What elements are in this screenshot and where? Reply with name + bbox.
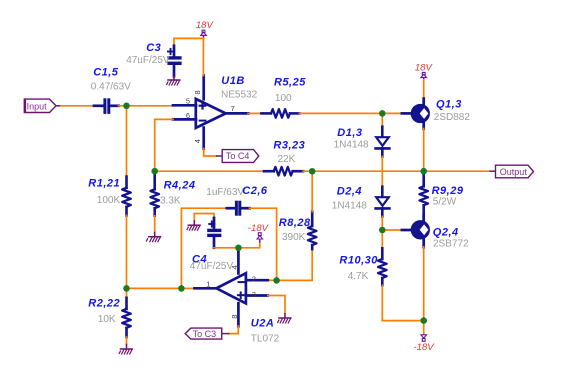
wire U2A pin3 to ground: [268, 296, 285, 314]
capacitor C1,5: [91, 67, 131, 113]
feedback rail R3 to output port: [303, 170, 490, 172]
svg-text:C3: C3: [146, 42, 161, 54]
node D junction: [178, 285, 185, 292]
wire U1B pin7 to R5: [248, 112, 262, 114]
output port: [490, 165, 533, 178]
wire node B to U1B pin 5: [127, 105, 174, 107]
node H junction: [235, 245, 242, 252]
svg-text:3.3K: 3.3K: [160, 196, 181, 207]
wire node F to node D: [127, 287, 182, 289]
svg-text:10K: 10K: [98, 314, 116, 325]
svg-text:5: 5: [186, 96, 190, 105]
node R8 rail junction: [309, 168, 316, 175]
wire D2 to node G: [381, 217, 383, 231]
wire 18V to C3 and U1B pin8: [174, 38, 203, 75]
resistor R3,23: [264, 140, 305, 176]
svg-text:1: 1: [206, 279, 210, 288]
wire bottom rail to -18V: [423, 321, 425, 335]
wire node G to Q2 base: [382, 229, 402, 231]
wire node B down to R1: [126, 106, 128, 177]
node C junction: [151, 168, 158, 175]
svg-text:0.47/63V: 0.47/63V: [91, 82, 131, 93]
svg-text:7: 7: [231, 104, 235, 113]
svg-text:NE5532: NE5532: [221, 89, 258, 100]
transistor Q1,3: [402, 98, 470, 129]
ground under R2: [119, 345, 132, 355]
svg-text:2SB772: 2SB772: [433, 239, 469, 250]
svg-text:D2,4: D2,4: [337, 186, 362, 198]
svg-text:4: 4: [193, 139, 202, 143]
svg-text:R4,24: R4,24: [164, 179, 196, 191]
power -18V near C4: [238, 223, 269, 248]
capacitor C4: [190, 214, 234, 272]
svg-text:R2,22: R2,22: [88, 298, 120, 310]
ground under R4: [146, 233, 160, 242]
wire node E to U2A pin 2: [268, 279, 277, 281]
svg-text:390K: 390K: [282, 232, 306, 243]
svg-text:1uF/63V: 1uF/63V: [206, 187, 244, 198]
wire C1 to node B: [119, 105, 127, 107]
op-amp U2A: [195, 251, 280, 345]
input port: [24, 99, 62, 112]
svg-text:To C3: To C3: [193, 329, 217, 339]
svg-text:R1,21: R1,21: [88, 178, 120, 190]
wire node A down to D1: [381, 113, 383, 127]
svg-text:8: 8: [193, 90, 202, 94]
svg-text:100: 100: [275, 93, 292, 104]
svg-text:R9,29: R9,29: [432, 185, 464, 197]
wire input to C1: [61, 105, 95, 107]
wire R5 to Q1 base: [299, 112, 402, 114]
resistor R1,21: [88, 177, 131, 216]
wire Q1 emitter to output node: [423, 129, 425, 172]
svg-text:8: 8: [230, 315, 239, 319]
wire R1 to node F: [126, 215, 128, 288]
svg-text:U2A: U2A: [251, 317, 275, 329]
wire 18V to Q1 collector: [423, 80, 425, 99]
svg-text:2: 2: [252, 275, 256, 284]
svg-text:-18V: -18V: [414, 342, 436, 353]
svg-text:1N4148: 1N4148: [332, 201, 367, 212]
wire U1B pin6 elbow to node C: [155, 119, 173, 171]
svg-text:Q1,3: Q1,3: [436, 98, 462, 110]
svg-text:R5,25: R5,25: [274, 77, 306, 89]
svg-text:2SD882: 2SD882: [434, 112, 471, 123]
svg-text:C2,6: C2,6: [242, 185, 268, 197]
wire C2 to node E: [250, 208, 277, 280]
capacitor C2,6: [206, 185, 268, 214]
svg-text:100K: 100K: [97, 195, 121, 206]
diode D2,4: [332, 186, 390, 217]
wire node D to U2A pin 1: [181, 287, 195, 289]
svg-text:4.7K: 4.7K: [348, 271, 369, 282]
svg-text:To C4: To C4: [226, 151, 250, 161]
resistor R2,22: [88, 291, 131, 345]
svg-text:6: 6: [186, 111, 190, 120]
ground at U2A pin 3: [278, 314, 291, 323]
op-amp U1B: [173, 75, 258, 149]
node bottom rail junction: [420, 317, 427, 324]
wire Q2 collector to bottom rail: [423, 247, 425, 321]
svg-text:47uF/25V: 47uF/25V: [190, 261, 234, 272]
svg-text:Input: Input: [27, 102, 48, 112]
node output junction: [420, 168, 427, 175]
port To C3: [185, 328, 229, 339]
ground under C3: [167, 76, 180, 85]
svg-text:TL072: TL072: [251, 333, 280, 344]
svg-text:18V: 18V: [196, 20, 215, 31]
wire node G down to R10: [381, 230, 383, 249]
power 18V at Q1 collector: [415, 63, 434, 81]
feedback rail node C to R3: [155, 170, 264, 172]
svg-text:22K: 22K: [278, 154, 296, 165]
svg-text:Output: Output: [500, 167, 528, 177]
ground near C4: [187, 221, 200, 230]
wire D1 to D2 crossing rail: [381, 157, 383, 188]
wire R10 to bottom rail: [382, 285, 423, 320]
svg-text:3: 3: [252, 290, 256, 299]
node G junction: [379, 227, 386, 234]
power 18V top left: [196, 20, 215, 38]
node E junction: [273, 277, 280, 284]
svg-text:R3,23: R3,23: [273, 140, 305, 152]
resistor R4,24: [150, 171, 195, 232]
svg-text:Q2,4: Q2,4: [433, 227, 459, 239]
svg-text:C1,5: C1,5: [93, 67, 119, 79]
resistor R9,29: [419, 175, 463, 221]
resistor R5,25: [261, 77, 306, 118]
wire node D up to C2 loop: [181, 208, 227, 288]
svg-text:-18V: -18V: [248, 223, 270, 234]
svg-text:U1B: U1B: [221, 75, 245, 87]
diode D1,3: [334, 127, 390, 157]
svg-text:47uF/25V: 47uF/25V: [126, 55, 170, 66]
resistor R10,30: [339, 248, 386, 285]
svg-text:1N4148: 1N4148: [334, 139, 369, 150]
svg-text:D1,3: D1,3: [337, 127, 362, 139]
wire node E to R8: [277, 249, 313, 280]
wire R8 to feedback rail: [311, 171, 313, 211]
wire C4 to node H: [214, 247, 238, 249]
svg-text:R8,28: R8,28: [279, 217, 311, 229]
node F junction: [123, 285, 130, 292]
power -18V bottom: [414, 335, 436, 353]
svg-text:R10,30: R10,30: [339, 254, 378, 266]
node B junction: [123, 103, 130, 110]
node A junction: [379, 110, 386, 117]
resistor R8,28: [279, 212, 317, 250]
wire U2A pin8 to To C3 port: [229, 326, 239, 334]
transistor Q2,4: [402, 215, 469, 250]
port To C4: [217, 150, 259, 163]
wire U1B pin4 to To C4 port: [204, 149, 217, 157]
svg-text:5/2W: 5/2W: [433, 197, 457, 208]
capacitor C3: [126, 42, 181, 76]
